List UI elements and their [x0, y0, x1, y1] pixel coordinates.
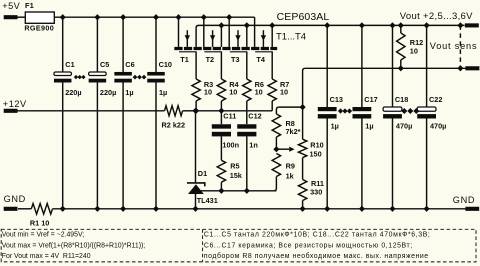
capacitor C22	[426, 25, 428, 107]
ellipsis dots C14-C16	[338, 108, 343, 113]
svg-text:C1: C1	[65, 60, 74, 69]
resistor R8	[276, 107, 279, 114]
wire R2 to gate bus	[183, 110, 196, 112]
svg-text:C13: C13	[330, 95, 343, 104]
svg-text:Vout min = Vref = ~2.495V;: Vout min = Vref = ~2.495V;	[2, 231, 85, 238]
svg-text:GND: GND	[453, 195, 475, 205]
svg-text:1µ: 1µ	[365, 121, 373, 130]
transistor T1	[178, 17, 180, 47]
svg-text:R2 k22: R2 k22	[162, 120, 186, 129]
capacitor C1	[62, 17, 64, 72]
+12V input terminal	[4, 109, 18, 113]
junction dots +5V rail	[60, 14, 66, 20]
Vout sens terminal	[465, 66, 479, 70]
svg-text:C12: C12	[248, 111, 261, 120]
wire Vout sens line	[305, 67, 466, 69]
resistor R2	[165, 106, 183, 116]
junction dots gate bus	[192, 108, 198, 114]
svg-text:470µ: 470µ	[396, 121, 412, 130]
junction dots ref line	[218, 188, 224, 194]
svg-text:T2: T2	[206, 55, 215, 64]
capacitor C13	[326, 25, 328, 107]
junction dot sense dash top	[457, 22, 463, 28]
svg-text:D1: D1	[198, 169, 207, 178]
svg-text:TL431: TL431	[197, 196, 218, 205]
wire GND rail	[53, 208, 466, 210]
wire gate bus	[196, 110, 273, 112]
capacitor C17	[361, 25, 363, 107]
svg-text:7k2*: 7k2*	[286, 127, 301, 136]
svg-text:RGE900: RGE900	[24, 24, 54, 33]
svg-text:R10: R10	[310, 141, 323, 150]
svg-text:C10: C10	[159, 60, 172, 69]
svg-text:R9: R9	[286, 162, 295, 171]
capacitor C12	[246, 111, 248, 124]
wire ref line	[196, 190, 277, 192]
resistor R3	[192, 79, 200, 101]
svg-text:Vout +2,5...3,6V: Vout +2,5...3,6V	[400, 11, 473, 22]
svg-text:10: 10	[229, 88, 237, 97]
svg-text:GND: GND	[4, 194, 26, 204]
svg-text:1µ: 1µ	[331, 121, 339, 130]
svg-text:C18: C18	[395, 95, 408, 104]
svg-text:подбором R8 получаем необходим: подбором R8 получаем необходимое макс. в…	[204, 252, 429, 260]
svg-text:+12V: +12V	[3, 99, 27, 109]
ellipsis dots C19-C21	[401, 108, 407, 114]
fuse F1	[25, 12, 54, 23]
svg-text:C6...C17 керамика; Все резисто: C6...C17 керамика; Все резисторы мощност…	[204, 243, 413, 250]
junction dot sense dash bottom	[457, 65, 463, 71]
resistor R6	[243, 79, 251, 101]
resistor R7	[268, 79, 276, 101]
svg-text:R5: R5	[230, 162, 239, 171]
capacitor C5	[96, 17, 98, 72]
svg-text:1µ: 1µ	[125, 88, 133, 97]
ellipsis dots C7-C9	[133, 75, 138, 80]
svg-text:150: 150	[310, 150, 322, 159]
GND output terminal	[465, 207, 479, 211]
potentiometer R10	[298, 139, 306, 157]
transistor T2	[203, 17, 205, 47]
svg-text:1k: 1k	[286, 171, 295, 180]
svg-text:10: 10	[280, 88, 288, 97]
svg-text:1µ: 1µ	[159, 88, 167, 97]
capacitor C10	[155, 17, 157, 72]
svg-text:220µ: 220µ	[65, 88, 81, 97]
svg-text:10: 10	[255, 88, 263, 97]
resistor R11	[298, 180, 306, 201]
junction dot R12 bottom	[398, 65, 404, 71]
junction dot R8-R9 wiper	[273, 146, 279, 152]
junction dots GND rail left	[60, 206, 66, 212]
notes box frame	[1, 229, 476, 262]
wire +12V rail	[18, 110, 165, 112]
svg-text:15k: 15k	[230, 171, 243, 180]
svg-text:+5V: +5V	[2, 1, 20, 11]
svg-text:10: 10	[410, 46, 418, 55]
ellipsis dots C2-C4	[74, 75, 78, 79]
wire GND terminal to R1	[18, 208, 31, 210]
svg-text:220µ: 220µ	[100, 88, 116, 97]
wire +5V terminal to fuse	[17, 16, 25, 18]
svg-text:470µ: 470µ	[430, 121, 446, 130]
svg-text:C22: C22	[429, 95, 442, 104]
junction dots Vout rail	[218, 22, 224, 28]
svg-text:C5: C5	[100, 60, 109, 69]
svg-text:1n: 1n	[249, 141, 258, 150]
resistor R5	[217, 160, 225, 182]
capacitor C11	[220, 111, 222, 124]
svg-text:C6: C6	[125, 60, 134, 69]
svg-text:T4: T4	[256, 55, 265, 64]
resistor R4	[217, 79, 225, 101]
svg-text:Vout max = Vref(1+(R8*R10)/((R: Vout max = Vref(1+(R8*R10)/((R8+R10)*R11…	[2, 243, 146, 250]
junction dot R8 top	[300, 104, 306, 110]
svg-text:T3: T3	[231, 55, 240, 64]
svg-text:For Vout max = 4V R11=240: For Vout max = 4V R11=240	[2, 253, 91, 260]
resistor R1	[31, 204, 52, 215]
svg-text:R1 10: R1 10	[30, 218, 49, 227]
wiper arrow to R10	[276, 148, 289, 150]
svg-text:10: 10	[204, 88, 212, 97]
svg-text:F1: F1	[25, 1, 34, 10]
shunt regulator D1 TL431	[195, 111, 197, 183]
resistor R9	[272, 154, 280, 177]
svg-text:CEP603AL: CEP603AL	[277, 11, 330, 23]
resistor R12	[400, 25, 402, 33]
dashed remote sense link	[459, 25, 461, 68]
transistor T4	[254, 17, 256, 47]
GND input terminal	[4, 207, 18, 211]
svg-text:Vout sens: Vout sens	[430, 41, 478, 51]
svg-text:T1...T4: T1...T4	[276, 31, 306, 42]
Vout output terminal	[465, 23, 479, 27]
transistor channel bar T1-T4	[174, 47, 277, 50]
svg-text:100n: 100n	[222, 141, 239, 150]
transistor T3	[228, 17, 230, 47]
capacitor C18	[392, 25, 394, 107]
svg-text:C1...C5 тантал 220мкФ*10В; C18: C1...C5 тантал 220мкФ*10В; C18...C22 тан…	[204, 231, 431, 238]
+5V input terminal	[4, 15, 18, 19]
wire Vout rail	[199, 24, 465, 26]
svg-text:C17: C17	[364, 95, 377, 104]
junction dots GND rail right	[300, 206, 306, 212]
svg-text:330: 330	[310, 187, 322, 196]
capacitor C6	[122, 17, 124, 72]
svg-text:C11: C11	[223, 111, 236, 120]
wire +5V rail	[54, 16, 254, 18]
sense drop line	[303, 68, 306, 139]
svg-text:T1: T1	[180, 55, 189, 64]
